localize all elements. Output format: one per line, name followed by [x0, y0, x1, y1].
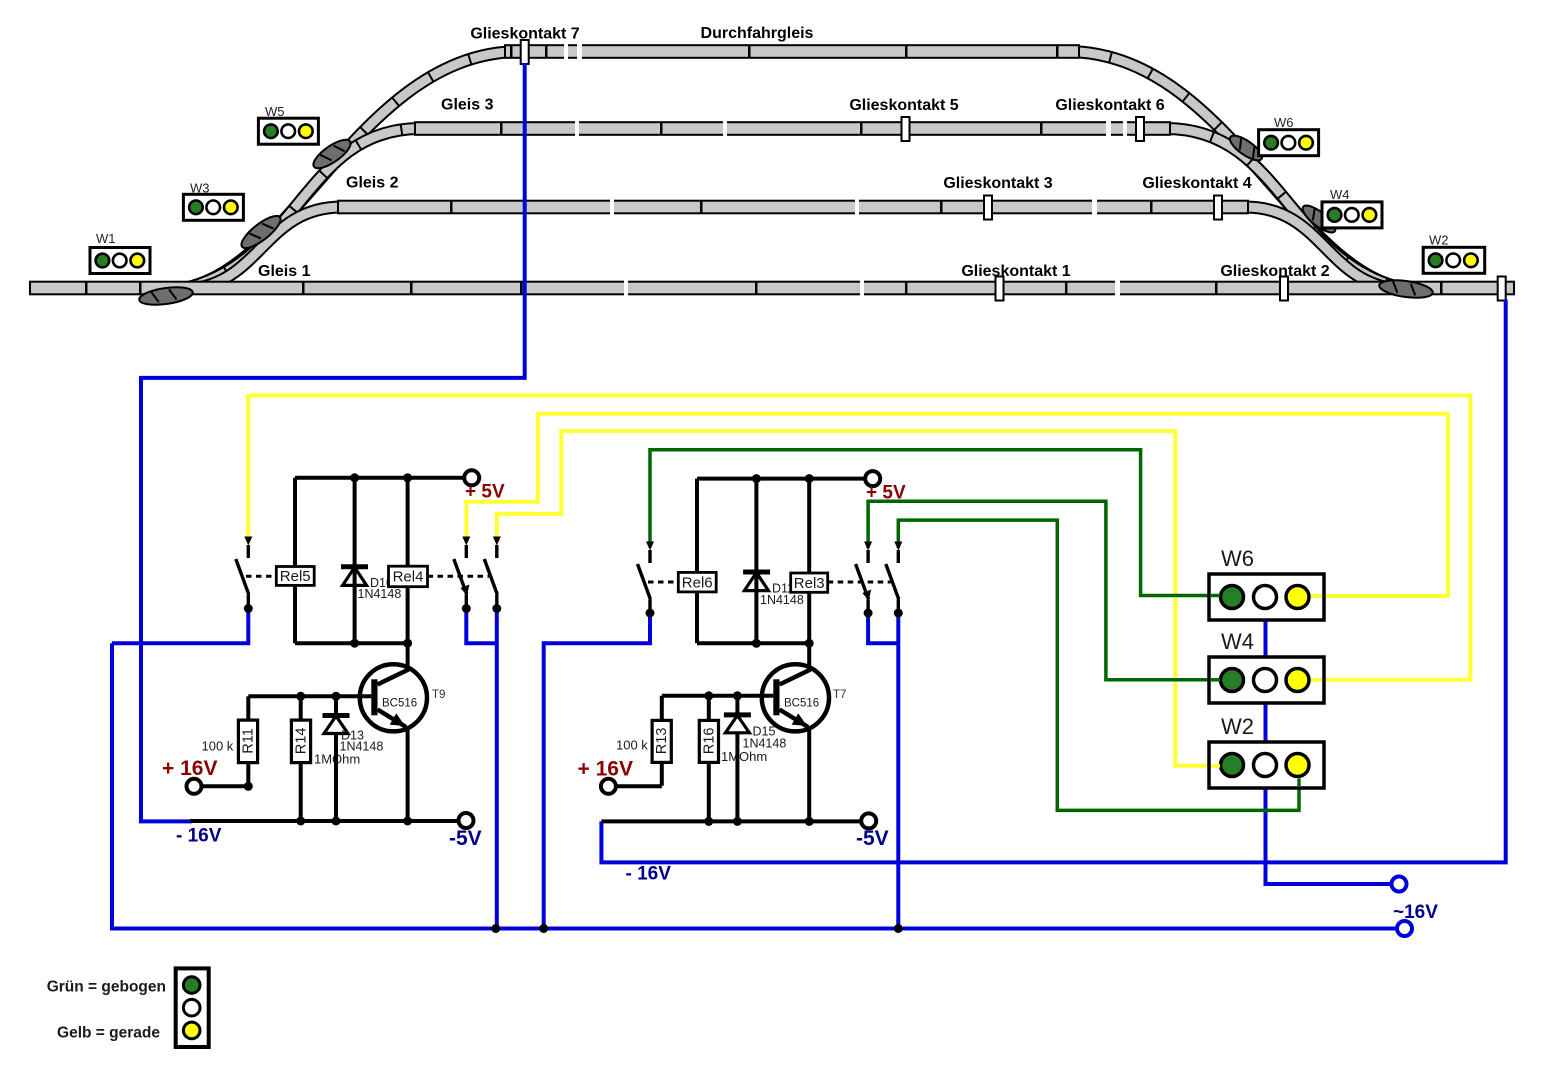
- signal W4 box: [1209, 629, 1324, 703]
- contact Glieskontakt 4 marker: [1214, 196, 1222, 220]
- wire curve right from Gleis 3: [1166, 129, 1404, 290]
- legend signal box: [176, 968, 209, 1047]
- node dots top rail circuit2: [752, 474, 761, 483]
- svg-text:Gelb = gerade: Gelb = gerade: [57, 1025, 160, 1042]
- diode D11: [743, 572, 770, 591]
- switch contact S1 circuit1: [236, 537, 253, 614]
- signal W6 top: [1259, 115, 1319, 156]
- terminal ~16V lower circle: [1397, 921, 1412, 936]
- transistor T9 BC516: [360, 643, 446, 821]
- wire green B circuit2 switch2 to W4 green: [868, 501, 1209, 680]
- wire ground rail circuit1: [190, 819, 459, 823]
- contact Glieskontakt 6 marker: [1136, 117, 1144, 141]
- wire blue circuit1 switch2 jog: [466, 609, 497, 643]
- switch contact S3 circuit2: [886, 542, 903, 618]
- wire yellow L1 circuit1 switch1 to W4 yellow: [248, 396, 1470, 680]
- node dots top rail circuit1: [350, 473, 359, 482]
- svg-text:T9: T9: [432, 689, 445, 701]
- switch contact S3 circuit1: [484, 537, 501, 614]
- wire D10 vertical: [353, 478, 357, 643]
- wire base rail circuit2: [662, 694, 774, 698]
- svg-text:R14: R14: [293, 727, 309, 754]
- svg-text:Glieskontakt 3: Glieskontakt 3: [943, 175, 1052, 192]
- svg-text:1N4148: 1N4148: [743, 737, 787, 751]
- svg-text:Rel6: Rel6: [682, 574, 713, 591]
- svg-text:W6: W6: [1221, 546, 1254, 571]
- svg-text:W1: W1: [96, 231, 116, 246]
- signal W2 box: [1209, 714, 1324, 788]
- transistor T7 BC516: [762, 643, 847, 821]
- wire top rail +5V circuit2: [697, 477, 865, 481]
- node Gleis 2 track: [338, 199, 1248, 215]
- svg-text:R16: R16: [701, 727, 717, 754]
- svg-text:Rel4: Rel4: [393, 569, 424, 586]
- svg-text:W6: W6: [1274, 115, 1294, 130]
- svg-text:+ 16V: + 16V: [162, 757, 217, 780]
- wire curve right from Gleis 2: [1245, 207, 1389, 288]
- wire yellow L2 circuit1 switch2 to W6 yellow: [466, 414, 1448, 596]
- signal W1: [90, 231, 150, 274]
- svg-text:100 k: 100 k: [202, 739, 234, 754]
- wire top rail +5V circuit1: [295, 476, 464, 480]
- contact Glieskontakt 2 marker: [1280, 277, 1288, 301]
- wire ground rail circuit2: [601, 819, 861, 823]
- svg-text:- 16V: - 16V: [626, 864, 672, 885]
- wire stubs into signal boxes: [1211, 596, 1322, 787]
- turnout blob right 1 (Gleis 1): [1378, 277, 1434, 300]
- dashed link Rel4-switch2-switch3: [428, 575, 490, 578]
- node Gleis 3 track: [415, 121, 1170, 137]
- wire Rel4 coil vertical: [406, 478, 410, 643]
- turnout blob left 2 (branch Gleis 2): [237, 211, 285, 253]
- signal W3: [183, 181, 243, 221]
- relay coil Rel5: [276, 567, 314, 586]
- contact Glieskontakt 7 marker: [521, 40, 529, 64]
- wire curve right main (Durchfahrgleis to Gleis1): [1067, 52, 1419, 291]
- wire base rail circuit1: [248, 694, 371, 698]
- svg-text:+ 5V: + 5V: [465, 482, 505, 503]
- svg-text:+ 5V: + 5V: [866, 483, 906, 504]
- relay coil Rel4: [389, 566, 428, 587]
- node Durchfahrgleis track: [505, 44, 1079, 60]
- terminal ~16V upper circle: [1392, 877, 1407, 892]
- svg-text:100 k: 100 k: [616, 738, 648, 753]
- contact Glieskontakt 1 marker: [996, 277, 1004, 301]
- resistor R13: [652, 696, 671, 786]
- signal W4 top: [1322, 187, 1382, 228]
- svg-text:Grün = gebogen: Grün = gebogen: [47, 979, 166, 996]
- node dots bottom coil rail circuit1: [350, 639, 359, 648]
- svg-text:1N4148: 1N4148: [760, 593, 804, 607]
- terminal -5V circuit2: [861, 813, 876, 828]
- switch contact S2 circuit2: [856, 542, 873, 618]
- dashed link Rel3-switch2-switch3: [828, 581, 891, 584]
- terminal +16V circuit1: [187, 779, 253, 794]
- contact Glieskontakt 5 marker: [902, 117, 910, 141]
- wire blue circuit1 switch1 to bus: [112, 610, 248, 643]
- wire blue W4 to W2: [1264, 703, 1268, 742]
- wire blue circuit2 switch2 jog: [868, 614, 898, 643]
- svg-text:Glieskontakt 1: Glieskontakt 1: [961, 263, 1070, 280]
- relay coil Rel6: [678, 572, 716, 592]
- junction dots on bus: [491, 924, 500, 933]
- terminal -5V circuit1: [459, 813, 474, 828]
- resistor R11: [238, 696, 257, 786]
- relay coil Rel3: [791, 573, 828, 592]
- wire yellow L3 circuit1 switch3 to W2 green side: [497, 431, 1209, 766]
- svg-text:Glieskontakt 6: Glieskontakt 6: [1055, 97, 1164, 114]
- svg-text:Glieskontakt 7: Glieskontakt 7: [470, 26, 579, 43]
- wire Rel5 coil vertical: [293, 478, 297, 643]
- svg-text:W4: W4: [1330, 187, 1350, 202]
- svg-text:R13: R13: [654, 727, 670, 754]
- svg-text:W2: W2: [1221, 714, 1254, 739]
- contact right end marker: [1498, 277, 1506, 301]
- wire coil rail bottom circuit2: [697, 641, 809, 645]
- svg-text:-5V: -5V: [449, 827, 482, 850]
- svg-text:W2: W2: [1429, 233, 1449, 248]
- svg-text:+ 16V: + 16V: [578, 758, 633, 781]
- terminal +5V circuit2: [865, 471, 880, 486]
- svg-text:BC516: BC516: [382, 698, 417, 710]
- svg-text:Gleis 2: Gleis 2: [346, 175, 399, 192]
- svg-text:R11: R11: [241, 728, 257, 754]
- svg-text:1MOhm: 1MOhm: [721, 749, 767, 764]
- dashed link switch1-Rel5: [246, 575, 276, 578]
- svg-text:1N4148: 1N4148: [358, 587, 402, 601]
- wire blue circuit1 switch3 to bus: [495, 609, 499, 929]
- wire blue circuit2 switch3 to bus: [896, 614, 900, 929]
- terminal +16V circuit2: [601, 779, 662, 794]
- svg-text:Gleis 3: Gleis 3: [441, 97, 494, 114]
- svg-text:Rel5: Rel5: [280, 568, 311, 585]
- svg-text:BC516: BC516: [784, 698, 819, 710]
- svg-text:Glieskontakt 4: Glieskontakt 4: [1142, 175, 1251, 192]
- wire green C circuit2 switch3 to W2 yellow bottom: [898, 520, 1299, 810]
- signal W5: [258, 104, 318, 144]
- switch contact S1 circuit2: [638, 542, 655, 618]
- svg-text:Durchfahrgleis: Durchfahrgleis: [701, 25, 814, 42]
- wire Rel3 coil vertical: [807, 479, 811, 644]
- svg-text:Rel3: Rel3: [794, 575, 825, 592]
- diode D15: [724, 696, 751, 822]
- wire curve left main (Gleis1 to Durchfahrgleis): [168, 52, 520, 291]
- wire blue bottom bus ~16V: [112, 643, 1397, 928]
- wire blue from Glieskontakt 7 to circuit 1 -16V: [141, 63, 525, 821]
- turnout blob left 1 (Gleis 1): [138, 284, 194, 307]
- wire Rel6 coil vertical: [695, 479, 699, 644]
- node Gleis 1 track: [30, 280, 1514, 296]
- svg-text:Glieskontakt 2: Glieskontakt 2: [1220, 263, 1329, 280]
- wire green A circuit2 switch1 to W6 green: [650, 450, 1209, 596]
- signal W6 box: [1209, 546, 1324, 620]
- signal W2 top: [1423, 233, 1485, 274]
- wire blue circuit2 switch1 to bus: [544, 614, 650, 929]
- turnout blob right 2 (branch Gleis 2): [1299, 201, 1339, 237]
- contact Glieskontakt 3 marker: [984, 196, 992, 220]
- wire blue W6 to W4: [1264, 620, 1268, 657]
- node dots bottom coil rail circuit2: [752, 639, 761, 648]
- svg-text:Glieskontakt 5: Glieskontakt 5: [849, 97, 958, 114]
- switch contact S2 circuit1: [454, 537, 471, 614]
- wire coil rail bottom circuit1: [295, 641, 408, 645]
- wire D11 vertical: [754, 479, 758, 644]
- diode D13: [323, 696, 350, 821]
- terminal +5V circuit1: [464, 470, 479, 485]
- dashed link switch1-Rel6: [648, 581, 678, 584]
- wire curve left to Gleis 2: [198, 207, 342, 288]
- diode D10: [341, 567, 368, 586]
- resistor R14: [291, 696, 310, 821]
- svg-text:Gleis 1: Gleis 1: [258, 263, 311, 280]
- wire blue from right contact to circuit 2 -16V: [601, 300, 1505, 863]
- svg-text:1N4148: 1N4148: [340, 740, 384, 754]
- wire blue W2 to ~16V terminal: [1266, 788, 1392, 884]
- svg-text:T7: T7: [833, 689, 846, 701]
- wire curve left to Gleis 3: [183, 129, 420, 290]
- svg-text:W4: W4: [1221, 629, 1254, 654]
- resistor R16: [699, 696, 718, 822]
- svg-text:- 16V: - 16V: [176, 826, 222, 847]
- turnout blob right 3 (branch Gleis 3): [1226, 131, 1265, 164]
- svg-text:-5V: -5V: [856, 827, 889, 850]
- svg-text:~16V: ~16V: [1393, 902, 1438, 923]
- turnout blob left 3 (branch Gleis 3): [309, 135, 354, 173]
